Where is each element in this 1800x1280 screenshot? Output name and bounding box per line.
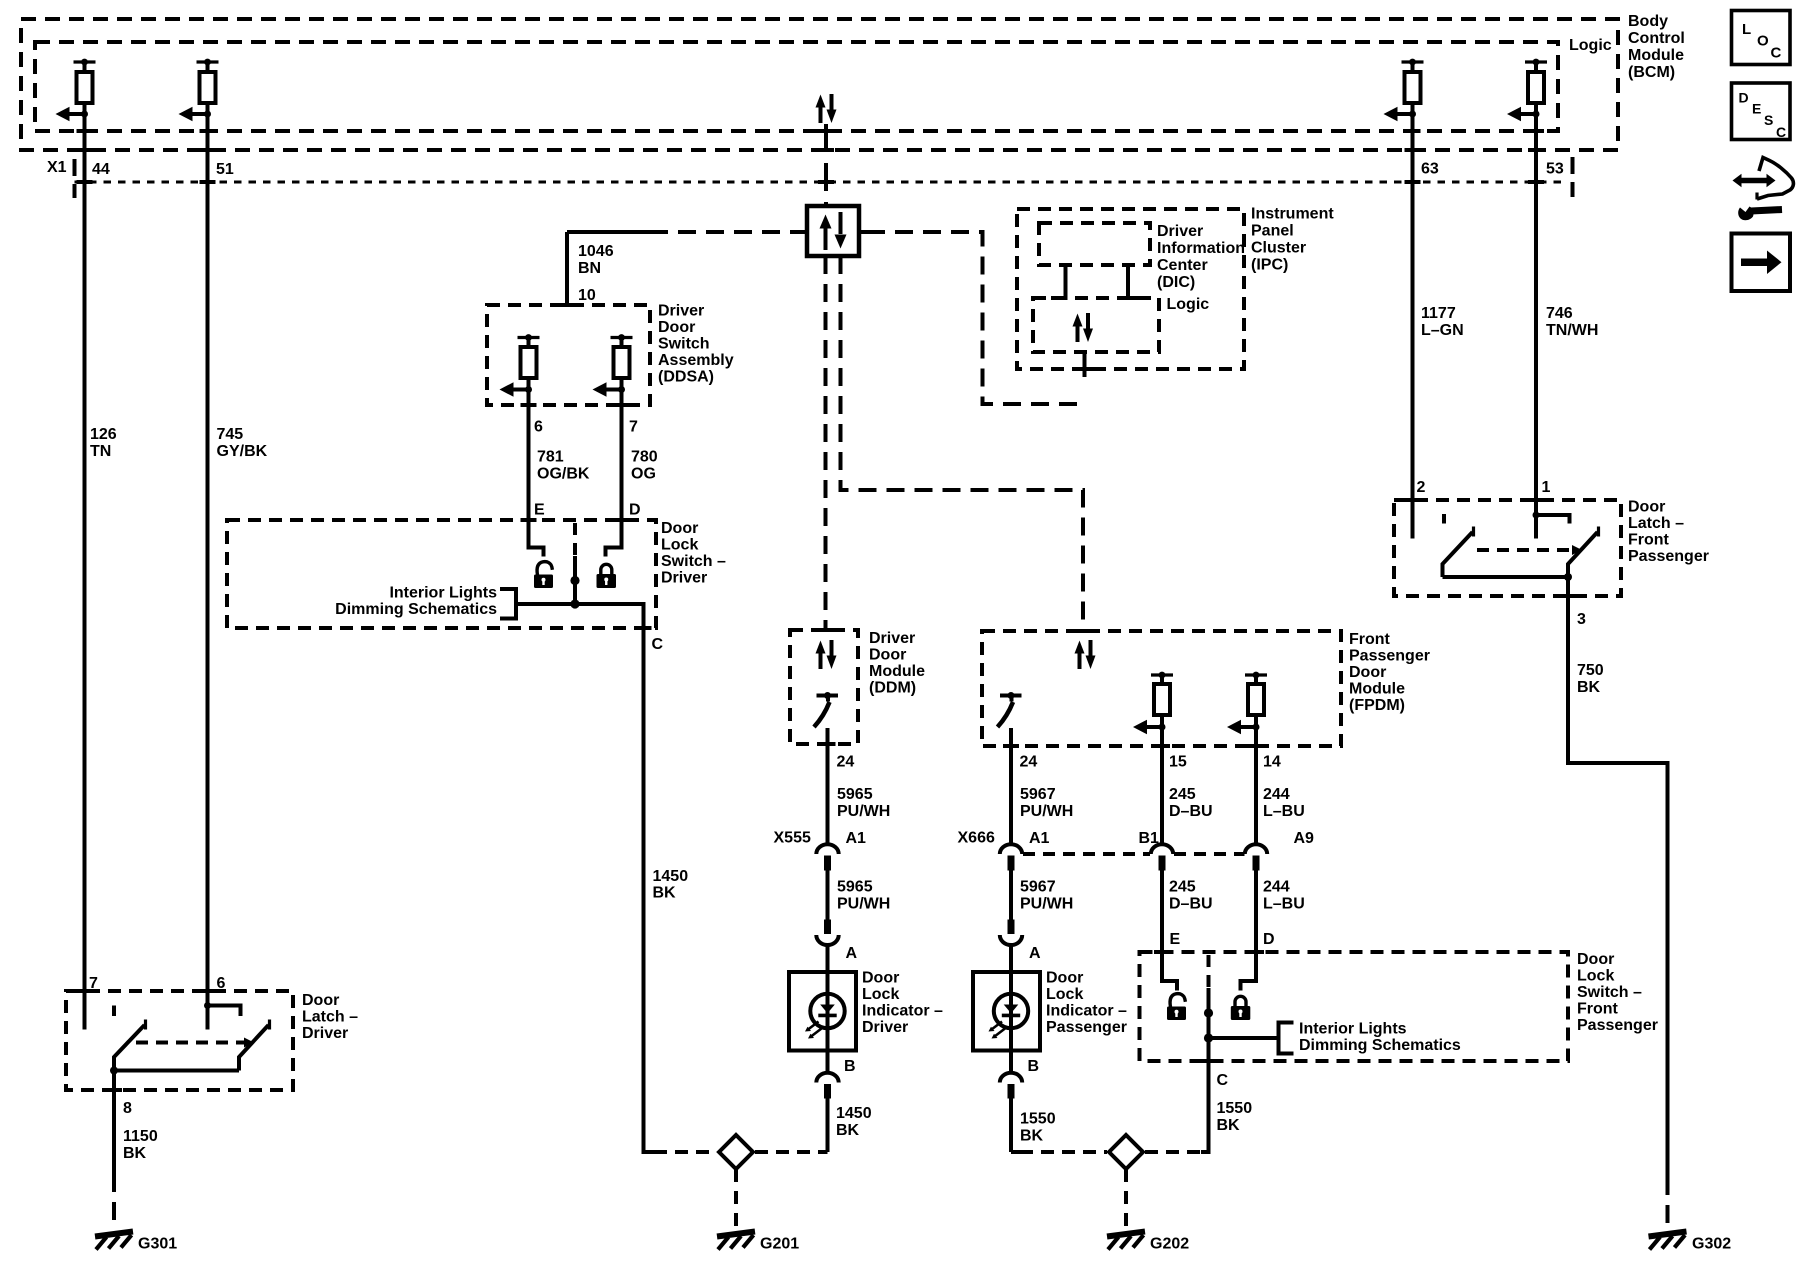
corner stub into ground bus (passenger indicator) bbox=[1011, 1150, 1020, 1154]
svg-text:B: B bbox=[1028, 1058, 1040, 1075]
tick wire 207.5 crossing latch box top bbox=[200, 989, 216, 993]
svg-text:Passenger: Passenger bbox=[1577, 1017, 1658, 1034]
svg-text:44: 44 bbox=[92, 161, 110, 178]
BCM high-side driver output pin 44 bbox=[56, 59, 96, 122]
svg-text:PU/WH: PU/WH bbox=[837, 803, 890, 820]
wire serial data dashed from BCM logic down to connector box bbox=[824, 124, 828, 206]
G201 splice diamond bbox=[719, 1135, 753, 1169]
svg-text:Assembly: Assembly bbox=[658, 352, 734, 369]
svg-text:5967: 5967 bbox=[1020, 786, 1056, 803]
svg-text:E: E bbox=[534, 502, 545, 519]
dashed bus to G202 splice right bbox=[1145, 1150, 1201, 1154]
door latch driver: mechanical link dashed bbox=[136, 1041, 245, 1045]
wire 5965 PU/WH between connectors bbox=[826, 871, 830, 920]
BCM high-side driver output pin 51 bbox=[179, 59, 219, 122]
wire 244 L-BU from X666 A9 to lock switch pin D bbox=[1241, 871, 1257, 991]
Door Lock Switch - Front Passenger dashed box bbox=[1140, 952, 1569, 1061]
X1 left end mark bbox=[73, 159, 77, 198]
door latch driver: mechanical link arrow bbox=[244, 1038, 254, 1048]
svg-text:BK: BK bbox=[836, 1122, 860, 1139]
junction dot upper bbox=[570, 576, 579, 585]
svg-text:Information: Information bbox=[1157, 240, 1245, 257]
svg-text:A1: A1 bbox=[1029, 830, 1050, 847]
svg-text:BK: BK bbox=[653, 885, 677, 902]
Door Lock Switch - Driver dashed box bbox=[227, 520, 656, 628]
svg-text:Dimming Schematics: Dimming Schematics bbox=[1299, 1037, 1461, 1054]
svg-text:A: A bbox=[1029, 945, 1041, 962]
svg-text:Interior Lights: Interior Lights bbox=[1299, 1021, 1407, 1038]
svg-text:8: 8 bbox=[123, 1100, 132, 1117]
svg-text:6: 6 bbox=[534, 419, 543, 436]
wire 1450 BK from driver lock switch pin C bbox=[642, 602, 646, 1150]
indicator passenger LED diode bbox=[1004, 1005, 1019, 1014]
tick wire 1162 crossing FPDM box bottom bbox=[1154, 744, 1170, 748]
connector X555 A1 socket arc bbox=[816, 844, 838, 854]
Driver Door Module (DDM) dashed box bbox=[790, 630, 858, 744]
svg-text:Lock: Lock bbox=[661, 537, 698, 554]
wire 1550 BK from passenger lock switch pin C bbox=[1207, 1038, 1211, 1152]
svg-text:126: 126 bbox=[90, 426, 117, 443]
ground G201 bbox=[717, 1232, 755, 1250]
wire 245 D-BU from FPDM pin 15 bbox=[1160, 715, 1164, 844]
bracket to interior lights dimming schematics (passenger) bbox=[1279, 1023, 1294, 1054]
X1 connector dotted line bbox=[75, 181, 1566, 184]
svg-text:D: D bbox=[1739, 90, 1749, 106]
Driver Information Center (DIC) dashed box bbox=[1039, 223, 1150, 265]
svg-text:15: 15 bbox=[1169, 754, 1187, 771]
svg-text:Module: Module bbox=[1349, 681, 1405, 698]
tick wire 528.5 crossing DDSA box bottom bbox=[521, 403, 537, 407]
wire 745 GY/BK circuit from BCM pin 51 to door latch driver bbox=[206, 103, 210, 1030]
DDM lock driver switch symbol bbox=[814, 692, 838, 727]
door latch driver: left fixed contact stub bbox=[112, 1006, 116, 1017]
indicator pin B socket arc bbox=[816, 1073, 838, 1083]
tick wire 84.5 crossing BCM box edge bbox=[77, 148, 93, 152]
wire 746 TN/WH from BCM pin 53 to passenger latch bbox=[1534, 103, 1538, 539]
door latch passenger: left fixed contact stub bbox=[1442, 514, 1446, 524]
svg-text:BK: BK bbox=[1577, 679, 1601, 696]
passenger lock switch: open padlock (unlock) bbox=[1167, 994, 1186, 1020]
svg-text:G202: G202 bbox=[1150, 1236, 1189, 1253]
wire 1550 BK down from passenger indicator bbox=[1009, 1099, 1013, 1153]
svg-text:Passenger: Passenger bbox=[1628, 548, 1709, 565]
FPDM driver output pin 14 bbox=[1227, 672, 1267, 735]
Door Lock Indicator - Driver box bbox=[789, 972, 856, 1051]
svg-text:D: D bbox=[629, 502, 641, 519]
Front Passenger Door Module (FPDM) dashed box bbox=[982, 631, 1341, 746]
svg-text:TN/WH: TN/WH bbox=[1546, 322, 1598, 339]
dashed bus to G202 splice left bbox=[1020, 1150, 1107, 1154]
svg-text:7: 7 bbox=[629, 419, 638, 436]
tick wire 207.5 crossing X1 line bbox=[200, 180, 216, 184]
svg-text:Indicator –: Indicator – bbox=[1046, 1003, 1127, 1020]
tick wire 1536 crossing X1 line bbox=[1528, 180, 1544, 184]
svg-text:Switch –: Switch – bbox=[1577, 984, 1642, 1001]
door latch passenger: left arm tip tick bbox=[1472, 527, 1475, 537]
tick wire 1412.5 crossing X1 line bbox=[1405, 180, 1421, 184]
svg-text:Switch: Switch bbox=[658, 336, 710, 353]
indicator passenger LED circle bbox=[994, 994, 1028, 1028]
svg-text:Passenger: Passenger bbox=[1349, 648, 1430, 665]
DDSA driver output pin 7 bbox=[593, 334, 633, 397]
dashed wire from splice down to G202 bbox=[1124, 1169, 1128, 1229]
tick wire 207.5 crossing BCM box edge bbox=[200, 148, 216, 152]
IPC logic output stub bbox=[1083, 352, 1087, 377]
wire 126 TN circuit from BCM pin 44 to door latch driver bbox=[83, 103, 87, 1030]
svg-text:3: 3 bbox=[1577, 611, 1586, 628]
wire 245 D-BU from X666 B1 to lock switch pin E bbox=[1162, 871, 1177, 991]
svg-text:1450: 1450 bbox=[836, 1105, 872, 1122]
tick wire 1536 crossing BCM box edge bbox=[1528, 148, 1544, 152]
svg-text:1046: 1046 bbox=[578, 243, 614, 260]
DIC to logic connection right bbox=[1128, 265, 1143, 298]
svg-text:(BCM): (BCM) bbox=[1628, 64, 1675, 81]
connector X666 A9 terminal stub bbox=[1253, 856, 1260, 871]
svg-text:E: E bbox=[1170, 931, 1181, 948]
svg-text:745: 745 bbox=[217, 426, 244, 443]
svg-text:B: B bbox=[844, 1058, 856, 1075]
svg-text:BK: BK bbox=[1020, 1128, 1044, 1145]
svg-text:5965: 5965 bbox=[837, 879, 873, 896]
svg-text:Driver: Driver bbox=[658, 303, 704, 320]
svg-text:Center: Center bbox=[1157, 257, 1208, 274]
Door Latch - Front Passenger dashed box bbox=[1394, 500, 1621, 596]
wire into indicator bbox=[826, 946, 830, 1051]
svg-text:Module: Module bbox=[1628, 47, 1684, 64]
svg-text:5967: 5967 bbox=[1020, 879, 1056, 896]
Driver Door Switch Assembly (DDSA) dashed box bbox=[487, 305, 650, 405]
svg-text:1: 1 bbox=[1542, 479, 1551, 496]
tick stub crossing IPC box bottom bbox=[1073, 367, 1096, 371]
indicator connector pin A terminal stub bbox=[824, 920, 831, 935]
svg-text:Body: Body bbox=[1628, 13, 1668, 30]
svg-text:BN: BN bbox=[578, 260, 601, 277]
svg-text:Latch –: Latch – bbox=[302, 1009, 358, 1026]
door latch passenger: junction dot on wire 1 bbox=[1533, 512, 1540, 519]
svg-text:14: 14 bbox=[1263, 754, 1281, 771]
passenger lock switch: center dashed common wire bbox=[1207, 955, 1211, 988]
svg-text:Door: Door bbox=[862, 970, 899, 987]
wire 750 BK dashed segment to ground bbox=[1666, 1177, 1670, 1229]
X1 right end mark bbox=[1571, 157, 1575, 197]
door latch passenger: common bottom wire bbox=[1443, 575, 1569, 579]
svg-text:Driver: Driver bbox=[862, 1019, 908, 1036]
BCM high-side driver output pin 63 bbox=[1384, 59, 1424, 122]
svg-text:D: D bbox=[1263, 931, 1275, 948]
svg-text:OG/BK: OG/BK bbox=[537, 466, 590, 483]
svg-text:Interior Lights: Interior Lights bbox=[389, 585, 497, 602]
IPC logic up/down arrows bbox=[1073, 313, 1094, 342]
door latch passenger: output junction dot bbox=[1564, 573, 1572, 581]
svg-text:L: L bbox=[1742, 21, 1751, 38]
svg-text:Latch –: Latch – bbox=[1628, 515, 1684, 532]
ground G202 bbox=[1107, 1232, 1145, 1250]
svg-text:D–BU: D–BU bbox=[1169, 896, 1213, 913]
svg-text:245: 245 bbox=[1169, 786, 1196, 803]
door latch driver: common bottom wire bbox=[114, 1069, 239, 1073]
junction dot lower bbox=[570, 599, 579, 608]
tick wire 1011 crossing FPDM box bottom bbox=[1003, 744, 1019, 748]
corner stub into ground bus bbox=[642, 1150, 655, 1154]
wire from DDM switch to pin 24 bbox=[826, 728, 830, 844]
svg-text:TN: TN bbox=[90, 443, 111, 460]
svg-text:(DIC): (DIC) bbox=[1157, 274, 1195, 291]
tick wire 1536 crossing logic box edge bbox=[1528, 129, 1544, 133]
svg-text:X1: X1 bbox=[47, 159, 67, 176]
solid segment to common line bbox=[573, 556, 577, 604]
svg-text:X555: X555 bbox=[774, 830, 811, 847]
svg-text:Door: Door bbox=[302, 992, 339, 1009]
BCM serial data up/down arrows bbox=[816, 94, 837, 123]
dashed serial bus from connector box to IPC bbox=[867, 232, 1085, 404]
svg-text:Door: Door bbox=[1628, 499, 1665, 516]
ground G301 bbox=[95, 1232, 133, 1250]
svg-text:BK: BK bbox=[123, 1145, 147, 1162]
svg-text:244: 244 bbox=[1263, 879, 1290, 896]
indicator driver LED diode bbox=[820, 1005, 835, 1014]
svg-text:1150: 1150 bbox=[123, 1128, 158, 1145]
svg-text:(FPDM): (FPDM) bbox=[1349, 697, 1405, 714]
connector X666 A1 terminal stub bbox=[1008, 856, 1015, 871]
svg-text:53: 53 bbox=[1546, 161, 1564, 178]
svg-text:Lock: Lock bbox=[1046, 986, 1083, 1003]
svg-text:X666: X666 bbox=[958, 830, 995, 847]
svg-text:Driver: Driver bbox=[661, 570, 707, 587]
tick wire 1412.5 crossing latch box top bbox=[1405, 498, 1421, 502]
svg-text:Module: Module bbox=[869, 663, 925, 680]
tick wire 1256 crossing box top bbox=[1248, 950, 1264, 954]
corner stub from indicator wire bbox=[818, 1150, 828, 1154]
dashed wire from splice down to G201 bbox=[734, 1169, 738, 1229]
svg-text:C: C bbox=[1771, 45, 1782, 62]
svg-text:Cluster: Cluster bbox=[1251, 240, 1306, 257]
Instrument Panel Cluster (IPC) dashed box bbox=[1017, 209, 1244, 369]
svg-text:Driver: Driver bbox=[1157, 223, 1203, 240]
svg-text:OG: OG bbox=[631, 466, 656, 483]
wire 1450 BK down from indicator bbox=[826, 1099, 830, 1153]
svg-text:Passenger: Passenger bbox=[1046, 1019, 1127, 1036]
svg-text:Door: Door bbox=[661, 520, 698, 537]
passenger indicator connector pin A socket arc bbox=[1000, 935, 1022, 945]
svg-text:A9: A9 bbox=[1294, 830, 1315, 847]
svg-text:10: 10 bbox=[578, 287, 596, 304]
indicator pin B terminal stub bbox=[824, 1084, 831, 1099]
icon LOC box bbox=[1732, 11, 1791, 65]
svg-text:Door: Door bbox=[1046, 970, 1083, 987]
svg-text:63: 63 bbox=[1421, 161, 1439, 178]
svg-text:PU/WH: PU/WH bbox=[837, 896, 890, 913]
svg-text:G302: G302 bbox=[1692, 1236, 1731, 1253]
door latch passenger: fixed contact branch from wire 1 bbox=[1536, 515, 1570, 524]
tick wire 84.5 crossing X1 line bbox=[77, 180, 93, 184]
svg-text:PU/WH: PU/WH bbox=[1020, 803, 1073, 820]
svg-text:Instrument: Instrument bbox=[1251, 206, 1334, 223]
wire 1046 BN horizontal solid from DDSA bbox=[567, 230, 650, 234]
FPDM lock driver switch symbol bbox=[998, 692, 1022, 727]
junction dot upper (passenger) bbox=[1204, 1008, 1213, 1017]
svg-text:Indicator –: Indicator – bbox=[862, 1003, 943, 1020]
G202 splice diamond bbox=[1109, 1135, 1143, 1169]
Body Control Module (BCM) outer dashed box bbox=[21, 19, 1618, 150]
svg-text:245: 245 bbox=[1169, 879, 1196, 896]
svg-text:A: A bbox=[846, 945, 858, 962]
svg-text:1450: 1450 bbox=[653, 868, 689, 885]
svg-text:Front: Front bbox=[1628, 532, 1670, 549]
svg-text:746: 746 bbox=[1546, 305, 1573, 322]
DDM up/down arrows bbox=[816, 640, 837, 669]
X666 connector dashed body line bbox=[1023, 852, 1150, 856]
svg-text:24: 24 bbox=[837, 754, 855, 771]
svg-text:Lock: Lock bbox=[1577, 968, 1614, 985]
door latch driver: output junction dot bbox=[110, 1067, 118, 1075]
svg-text:L–GN: L–GN bbox=[1421, 322, 1464, 339]
door latch driver: right arm tip tick bbox=[268, 1020, 271, 1030]
svg-text:PU/WH: PU/WH bbox=[1020, 896, 1073, 913]
connector X666 B1 terminal stub bbox=[1159, 856, 1166, 871]
svg-text:G301: G301 bbox=[138, 1236, 177, 1253]
passenger lock switch: common horizontal wire to bracket bbox=[1209, 1036, 1279, 1040]
tick wire 621.5 crossing DDSA box bottom bbox=[614, 403, 630, 407]
connector X666 A1 socket arc bbox=[1000, 844, 1022, 854]
door latch passenger: left switch arm bbox=[1443, 532, 1473, 577]
svg-text:E: E bbox=[1752, 101, 1761, 117]
svg-text:1550: 1550 bbox=[1217, 1100, 1253, 1117]
FPDM driver output pin 15 bbox=[1133, 672, 1173, 735]
svg-text:BK: BK bbox=[1217, 1117, 1241, 1134]
wire 5967 PU/WH between connectors bbox=[1009, 871, 1013, 920]
tick wire 826 crossing X1 line bbox=[818, 180, 834, 184]
svg-text:C: C bbox=[1776, 124, 1786, 140]
dashed serial bus from connector box to FPDM bbox=[841, 256, 1084, 631]
svg-text:Dimming Schematics: Dimming Schematics bbox=[335, 601, 497, 618]
driver lock switch: closed padlock (lock) bbox=[597, 564, 617, 588]
connector X666 B1 socket arc bbox=[1151, 844, 1173, 854]
svg-text:(IPC): (IPC) bbox=[1251, 257, 1288, 274]
Door Latch - Driver dashed box bbox=[66, 991, 293, 1090]
indicator driver LED circle bbox=[810, 994, 844, 1028]
connector X666 A9 socket arc bbox=[1245, 844, 1267, 854]
tick wire 114 crossing latch box bottom bbox=[106, 1088, 122, 1092]
tick wire 207.5 crossing logic box edge bbox=[200, 129, 216, 133]
svg-text:Door: Door bbox=[658, 319, 695, 336]
passenger indicator pin B socket arc bbox=[1000, 1073, 1022, 1083]
svg-text:2: 2 bbox=[1417, 479, 1426, 496]
wire 244 L-BU from FPDM pin 14 bbox=[1254, 715, 1258, 844]
svg-text:5965: 5965 bbox=[837, 786, 873, 803]
svg-text:Front: Front bbox=[1349, 631, 1391, 648]
svg-text:Switch –: Switch – bbox=[661, 553, 726, 570]
ground G302 bbox=[1649, 1232, 1687, 1250]
svg-text:Door: Door bbox=[1577, 951, 1614, 968]
wire 750 BK from latch pin 3 bbox=[1568, 577, 1668, 1177]
svg-text:S: S bbox=[1764, 112, 1773, 128]
svg-text:C: C bbox=[652, 636, 664, 653]
svg-text:Driver: Driver bbox=[869, 630, 915, 647]
dashed bus to G201 splice right bbox=[755, 1150, 818, 1154]
tick bus crossing DDM box top bbox=[818, 628, 834, 632]
svg-text:Front: Front bbox=[1577, 1001, 1619, 1018]
Door Lock Indicator - Passenger box bbox=[973, 972, 1040, 1051]
dashed serial bus from connector box to DDM bbox=[824, 256, 828, 630]
svg-text:1177: 1177 bbox=[1421, 305, 1456, 322]
wire 1046 BN vertical into DDSA bbox=[565, 232, 569, 305]
wire from indicator pin B bbox=[826, 1051, 830, 1073]
svg-text:Control: Control bbox=[1628, 30, 1685, 47]
tick wire 1162 crossing box top bbox=[1154, 950, 1170, 954]
wire from passenger indicator pin B bbox=[1009, 1051, 1013, 1073]
connector X555 A1 terminal stub bbox=[824, 856, 831, 871]
junction dot lower (passenger) bbox=[1204, 1033, 1213, 1042]
DIC to logic connection left bbox=[1051, 265, 1066, 298]
svg-text:L–BU: L–BU bbox=[1263, 803, 1305, 820]
wire 1150 BK from latch pin 8 bbox=[112, 1071, 116, 1175]
tick wire 826 crossing BCM box edge bbox=[818, 148, 834, 152]
svg-text:(DDSA): (DDSA) bbox=[658, 369, 714, 386]
svg-text:D–BU: D–BU bbox=[1169, 803, 1213, 820]
wire 1046 BN horizontal dashed to connector box bbox=[650, 230, 798, 234]
door latch driver: left arm tip tick bbox=[144, 1020, 147, 1030]
svg-text:C: C bbox=[1217, 1072, 1229, 1089]
svg-text:750: 750 bbox=[1577, 662, 1604, 679]
driver lock switch: center dashed common wire bbox=[573, 523, 577, 556]
svg-text:A1: A1 bbox=[846, 830, 867, 847]
dashed bus to G201 splice left bbox=[654, 1150, 717, 1154]
door latch passenger: right arm tip tick bbox=[1597, 527, 1600, 537]
passenger indicator connector pin A terminal stub bbox=[1008, 920, 1015, 935]
corner stub from passenger lock switch C wire bbox=[1201, 1150, 1211, 1154]
svg-text:24: 24 bbox=[1020, 754, 1038, 771]
tick wire 84.5 crossing latch box top bbox=[77, 989, 93, 993]
passenger lock switch: closed padlock (lock) bbox=[1231, 996, 1251, 1020]
BCM Logic inner dashed box bbox=[35, 42, 1558, 131]
wire from FPDM switch to pin 24 bbox=[1009, 728, 1013, 844]
icon double arrow with outline bbox=[1733, 158, 1794, 221]
indicator connector pin A socket arc bbox=[816, 935, 838, 945]
tick wire 528.5 crossing lock switch box top bbox=[521, 518, 537, 522]
wire 1177 L-GN from BCM pin 63 to passenger latch bbox=[1411, 103, 1415, 539]
tick wire 621.5 crossing lock switch box top bbox=[614, 518, 630, 522]
tick wire 826 crossing logic box edge bbox=[818, 129, 834, 133]
icon DESC box bbox=[1732, 83, 1791, 140]
door latch driver: junction dot on wire 6 bbox=[204, 1002, 211, 1009]
door latch driver: right switch arm bbox=[239, 1025, 269, 1071]
svg-text:(DDM): (DDM) bbox=[869, 680, 916, 697]
tick wire 1208.5 crossing box bottom bbox=[1201, 1059, 1217, 1063]
svg-text:Logic: Logic bbox=[1569, 37, 1612, 54]
svg-text:Lock: Lock bbox=[862, 986, 899, 1003]
tick wire 1536 crossing latch box top bbox=[1528, 498, 1544, 502]
svg-text:Panel: Panel bbox=[1251, 223, 1294, 240]
door latch passenger: mechanical link arrow bbox=[1572, 545, 1582, 555]
door latch passenger: mechanical link dashed bbox=[1477, 548, 1573, 552]
svg-text:Driver: Driver bbox=[302, 1025, 348, 1042]
wire 781 OG/BK from DDSA pin 6 bbox=[529, 378, 544, 557]
passenger indicator pin B terminal stub bbox=[1008, 1084, 1015, 1099]
door latch driver: fixed contact branch from wire 6 bbox=[208, 1006, 241, 1017]
bracket to interior lights dimming schematics bbox=[500, 589, 516, 619]
svg-text:Door: Door bbox=[869, 647, 906, 664]
tick wire 567 crossing DDSA box top bbox=[559, 303, 575, 307]
svg-text:780: 780 bbox=[631, 449, 658, 466]
svg-text:Logic: Logic bbox=[1167, 296, 1210, 313]
svg-text:244: 244 bbox=[1263, 786, 1290, 803]
data connector box (in-line harness connector) bbox=[798, 206, 867, 256]
svg-text:Door: Door bbox=[1349, 664, 1386, 681]
svg-text:GY/BK: GY/BK bbox=[217, 443, 268, 460]
solid segment between dots bbox=[1207, 988, 1211, 1038]
icon forward arrow box bbox=[1732, 234, 1791, 292]
wire 1150 BK dashed segment to ground bbox=[112, 1174, 116, 1229]
